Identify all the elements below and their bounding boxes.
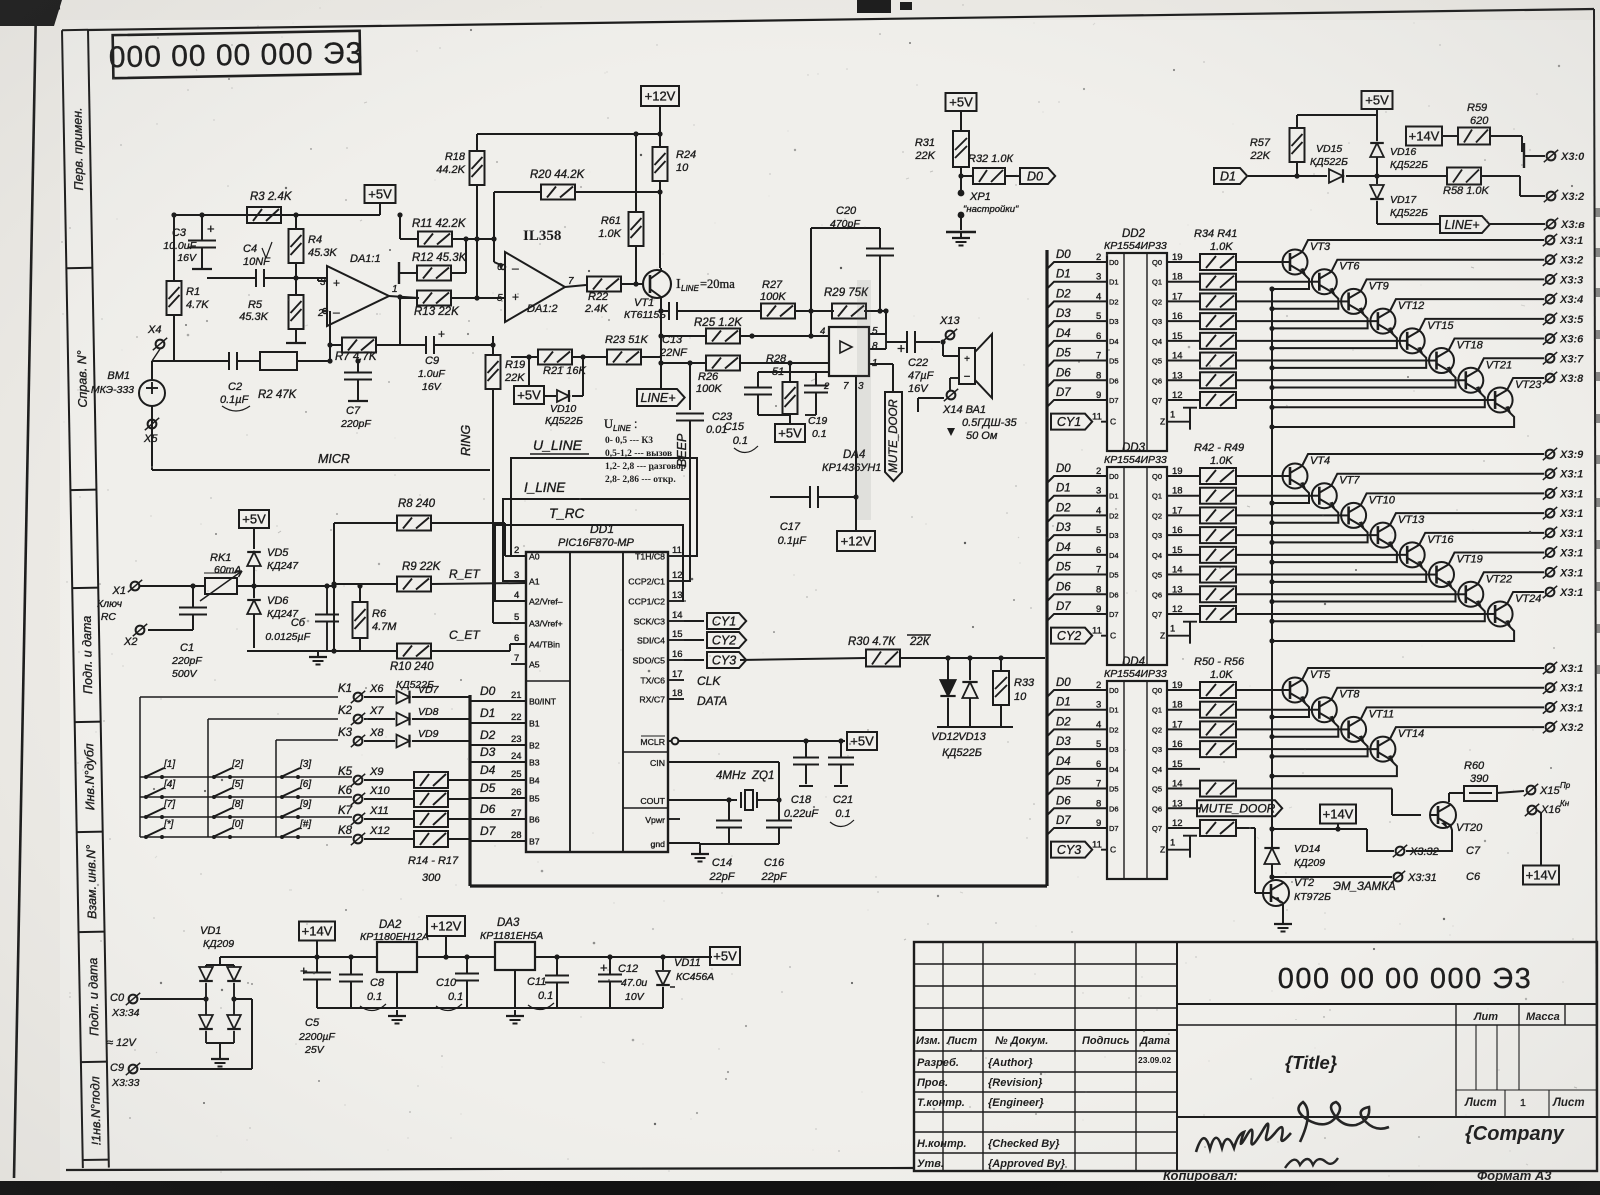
wire DD4 row14 to VT20 base [1236,789,1421,815]
wire net D4 to DD1 [470,763,508,780]
resistor R31 [914,131,969,190]
+14V flag top-right [1406,127,1458,146]
resistor R3 [247,191,293,223]
capacitor C8 [339,957,386,1011]
transistor VT1 [624,268,671,321]
right edge scan marks [1595,208,1600,674]
title block table [914,942,1597,1171]
rectifier bridge VD1 КД209 [199,925,241,1053]
resistor R57 [1249,128,1304,179]
labels CLK DATA [697,674,727,708]
key switch [1] [144,759,175,779]
connector X3:1 [1543,701,1583,714]
amplifier DA4 КР1436УН1 [820,326,881,474]
connector X3:1 [1543,586,1583,599]
transistor VT19 [1236,553,1544,605]
key switch [#] [280,819,311,839]
capacitor C5 [298,957,335,1056]
+14V flag far right [1523,810,1559,885]
regulator DA3 КР1181ЕН5А [480,917,543,1008]
main +14V rail [220,954,712,959]
resistor R6 [353,583,398,651]
capacitor C23 and BEEP net [675,360,733,556]
resistor R25 [661,311,829,344]
connector X3:0 row [1544,150,1585,163]
connector X3:31 row [1272,871,1481,884]
capacitor C7 [340,358,372,430]
title block Лит Масса [1473,1011,1560,1023]
key switch [9] [280,799,311,819]
speaker BA1 [943,334,992,398]
resistor R20 [494,169,660,239]
resistor R32 [961,153,1020,184]
DD1 left pins A0-A5 [511,545,563,670]
key switch [4] [144,779,175,799]
wire VT1 emitter to LINE+ node [658,308,663,389]
net loop T_RC [495,506,684,601]
wire DA4 pin5 node [869,311,886,334]
transistor VT14 [1236,727,1544,779]
diode VD8 with key K2 connector X7 [338,705,470,725]
+14V flag power [299,922,335,958]
wire net D7 to DD1 [470,824,508,841]
net flag CY2 at DD1 [684,632,746,648]
key row K7 connector X11 resistor [338,805,470,827]
diode VD7 with key K1 connector X6 [338,683,470,703]
resistor R27 [760,279,795,319]
net flag CY3 at DD1 [684,652,746,668]
net flag LINE+ [637,389,685,406]
capacitor C2 [165,352,250,411]
net flag CY1 clock input of DD2 [1051,412,1116,430]
transistor VT3 [1236,240,1544,292]
capacitor C1 [148,583,207,680]
DD3 D input rows [1047,463,1162,621]
+5V flag near VD10 [514,354,544,404]
net flag D1 [1214,168,1297,184]
label Формат А3 [1477,1168,1552,1183]
wire DA1:1 output node [389,294,419,345]
wire DA1:1 inverting node [318,278,333,364]
wire net D0 to DD1 [470,684,508,701]
net flag LINE+ top-right [1377,216,1585,233]
zener VD11 [656,957,714,1008]
label КД522Б above VD7 [396,679,434,691]
DD3 Z pin [1160,622,1197,644]
label КД522Б under VD12 VD13 [942,747,982,759]
capacitor C15 [724,372,829,453]
wires keypad nets into bus [469,697,471,741]
resistor R11 [397,212,496,246]
resistor R19 [486,336,662,470]
resistor R4 [289,215,338,278]
capacitor C9 [400,327,496,393]
wire DD4 row12 to VT2 base [1236,828,1263,893]
capacitor C11 [527,957,569,1010]
capacitor C10 [436,957,479,1011]
+12V flag below DA4 [837,497,875,551]
connector X3:3 [1543,273,1583,286]
title block header row texts [916,1035,1170,1047]
wire net D1 to DD1 [470,706,508,723]
connector X2 [123,624,147,648]
diode VD17 [1370,176,1428,224]
MCLR pin wire to +5V [668,738,845,745]
resistor R23 [572,334,661,365]
resistor R21 [511,350,586,378]
DD2 resistor bank R34 R41 [1167,228,1237,408]
resistor R2 [242,352,330,401]
key row K8 connector X12 resistor [338,825,470,847]
capacitor C6 [265,583,339,651]
connector X3:1 [1543,682,1583,695]
power ground rail [317,1008,663,1024]
wire R20 to inverting input [494,239,503,266]
diode VD5 [247,547,299,598]
wire RING to DD1 [493,470,511,623]
resistor R7 [330,338,400,364]
wire +5V bias rail [171,212,380,217]
resistor R1 [167,215,210,361]
DD2 D input rows [1047,249,1162,407]
key switch [8] [212,799,243,819]
diode VD14 [1264,829,1325,880]
+5V flag power [663,947,740,965]
connector X3:1 [1543,566,1583,579]
resistor R18 [436,151,484,298]
label Копировал [1163,1168,1238,1183]
connector X3:2 [1543,254,1583,267]
DD4 Z pin [1160,836,1197,858]
connector X3:1 [1543,507,1583,520]
connector X3:1 [1543,468,1583,481]
capacitor C17 [770,376,859,547]
connector X13 [939,315,975,342]
title block Company [1465,1123,1565,1145]
net flag CY1 at DD1 [684,613,746,629]
transistor VT10 [1236,493,1544,545]
key switch [6] [280,779,311,799]
capacitor C3 [163,215,216,269]
key switch [7] [144,799,175,819]
connector X5 [143,418,159,445]
ground rail under RK1 node [247,648,397,664]
title block document number [1278,963,1533,995]
capacitor C14 [708,800,742,883]
DD2 Z pin [1160,408,1197,430]
resistor R10 [390,628,526,673]
transistor VT20 [1406,802,1483,851]
+14V flag near DD4 [1269,805,1394,852]
label RING [459,424,473,456]
connector X16 [1525,799,1570,816]
connector X1 [97,580,142,623]
capacitor C13 [659,302,688,359]
wire BEEP to loop [689,499,691,556]
DD4 resistor bank R50 - R56 [1167,656,1245,836]
connector X3:6 [1543,332,1584,345]
connector X3:1 [1543,234,1583,247]
key row K6 connector X10 resistor [338,785,470,807]
connector X3:7 [1543,352,1584,365]
DD1 right pins [628,545,684,849]
label 12V AC [107,1037,137,1049]
DD4 D input rows [1047,677,1162,835]
crystal ZQ1 4MHz [668,762,782,810]
title block Лист row [1464,1097,1585,1109]
connector X3:4 [1543,293,1583,306]
key switch [2] [212,759,243,779]
transistor VT11 [1236,707,1544,759]
diode VD13 [958,655,986,743]
connector X3:1 [1543,487,1583,500]
D0-D7 bus vertical [468,695,471,886]
keypad column risers [140,697,352,837]
diode VD15 [1297,143,1377,183]
capacitor C22 [869,331,946,395]
net flag CY2 clock input of DD3 [1051,626,1116,644]
key switch [*] [144,819,174,839]
title block Title [1285,1052,1337,1073]
transistor VT4 [1236,454,1544,506]
wire net D6 to DD1 [470,802,508,819]
IC DD2 КР1554ИР33 [1104,228,1167,451]
collector bus +14V riser [1271,290,1273,847]
+5V flag above DA1:1 [365,185,396,215]
DD3 resistor bank R42 - R49 [1167,442,1244,622]
connector X15 [1524,781,1571,797]
op-amp DA1:1 [317,253,398,326]
transistor VT16 [1236,533,1544,585]
connector X3:5 [1543,313,1584,326]
resistor R13 [400,291,505,319]
resistor R26 [661,356,829,396]
+12V power flag [641,86,679,146]
resistor R61 [598,134,643,287]
IC DD3 КР1554ИР33 [1104,442,1167,665]
+5V flag XP1 [946,93,977,132]
resistor R24 [653,147,697,268]
diode VD12 [931,655,959,743]
transistor VT9 [1236,279,1544,331]
microphone BM1 [91,361,165,470]
+5V flag top-right [1362,91,1393,128]
+5V flag at MCLR [847,732,877,750]
resistor R5 [239,278,306,343]
+5V flag above VD5 [239,510,269,549]
capacitor C16 [760,800,792,883]
connector X3:1 [1543,546,1583,559]
transistor VT12 [1236,299,1544,351]
label I_LINE=20ma [676,277,735,293]
resistor R28 [766,353,798,424]
transistor VT24 [1236,592,1544,644]
resistor R29 [824,287,869,319]
transistor VT13 [1236,513,1544,565]
net flag CY3 clock input of DD4 [1051,840,1116,858]
resistor R58 [1377,168,1520,198]
connector C0 X3:34 [110,992,209,1019]
wire MICR [152,452,490,470]
op-amp DA1:2 IL358 [497,228,574,322]
wire VD12 VD13 R33 common [937,726,1013,728]
wire +12V rail to R18 [477,131,663,151]
ground XP1 [946,232,976,246]
IC DD4 КР1554ИР33 [1104,656,1167,879]
document number box top-left [108,31,363,78]
key switch [3] [280,759,311,779]
key row K5 connector X9 resistor [338,766,470,788]
transistor VT21 [1236,358,1544,410]
connector X14 [918,389,1017,442]
ground bar X3 frame [1524,143,1545,168]
resistor R59 [1458,102,1522,152]
IC DD1 PIC16F870 [526,522,668,852]
transistor VT7 [1236,474,1544,526]
title block signature rows [917,1055,1171,1170]
capacitor C19 [804,372,828,440]
D0-D7 bus bottom rail [470,884,1047,887]
resistor R22 [565,277,643,316]
net flag MUTE_DOOR at DD4 [1197,800,1282,816]
wire +5V to R57 and VD16 [1297,115,1377,139]
connector C9 X3:33 [110,996,252,1089]
diode VD6 [247,595,299,648]
wire net D5 to DD1 [470,781,508,798]
ground bridge [211,1053,229,1067]
wires K1-K3 rows to columns [140,697,338,740]
transistor VT15 [1236,319,1544,371]
D bus right riser to DD2 [1045,250,1048,886]
transistor VT6 [1236,260,1544,312]
resistor R30 [740,635,1045,667]
resistor R60 [1449,760,1524,802]
keypad row wires [140,777,352,839]
transistor VT22 [1236,572,1544,624]
DD1 ground [668,819,779,862]
label R14-R17 300 [408,855,459,884]
capacitor C20 [811,205,894,314]
resistor R33 [993,655,1035,727]
wire net D3 to DD1 [470,745,508,762]
DD1 left pins B0-B7 [508,690,557,847]
capacitor C18 [784,741,820,820]
connector X3:2 [1543,721,1583,734]
connector X3:8 [1543,372,1584,385]
capacitor C21 [828,741,854,827]
transistor VT18 [1236,339,1544,391]
capacitor C4 [207,242,327,287]
left margin column strips [62,30,109,1168]
key switch [0] [212,819,243,839]
wire net D2 to DD1 [470,728,508,745]
wire audio line y311 [661,308,889,313]
transistor VT8 [1236,688,1544,740]
capacitor C12 [598,957,647,1008]
+5V flag below R28 [775,424,805,442]
ground VT2 [1274,918,1292,932]
net loop U_LINE [511,437,697,556]
net loop I_LINE [503,480,690,581]
label U_LINE annotation [604,417,686,485]
connector X3:1 [1543,662,1583,675]
transistor VT5 [1236,668,1544,720]
transistor VT23 [1236,378,1544,430]
connector X3:9 [1543,448,1584,461]
connector X3:2 row [1520,176,1584,203]
connector X3:32 row [1393,845,1481,858]
diode VD10 [544,354,586,427]
resistor R9 [331,561,526,592]
connector X4 [147,324,167,361]
transistor VT2 [1263,877,1396,918]
net flag D0 [1020,168,1055,184]
net flag MUTE_DOOR vertical [869,364,902,481]
resistor R8 [331,498,505,651]
connector X3:1 [1543,527,1583,540]
regulator DA2 КР1180ЕН12А [360,919,429,1008]
diode VD16 [1370,128,1428,179]
fuse RK1 [140,552,334,601]
key switch [5] [212,779,243,799]
resistor R12 [399,239,468,284]
handwritten mark [1196,1102,1389,1168]
diode VD9 with key K3 connector X8 [338,727,470,747]
+12V flag power [427,916,465,957]
jumper XP1 [958,190,1019,230]
